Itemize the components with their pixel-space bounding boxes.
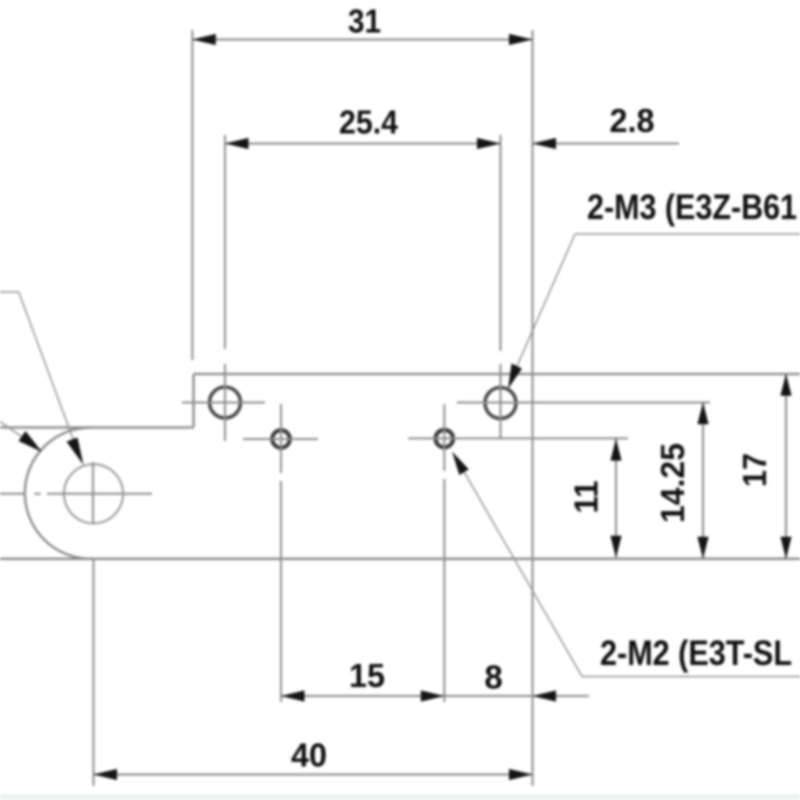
svg-text:2.8: 2.8 [610, 102, 655, 139]
leader: arc radius from left [0, 422, 25, 440]
dim line 31 [192, 39, 532, 41]
dim 8 tail [533, 695, 590, 697]
M3 hole1 crosshair [182, 402, 265, 404]
leader arrowhead at M2 hole 2 [452, 452, 469, 476]
leader arrowhead at M3 hole 2 [508, 364, 522, 390]
dim line 25.4 [225, 143, 501, 145]
dim line 15+8 [281, 695, 533, 697]
bottom band [0, 794, 800, 800]
M2 hole1 crosshair [243, 438, 318, 440]
M2 hole2 crosshair + 11 extension [408, 437, 628, 439]
dim line 14.25 [702, 403, 704, 559]
arrows 17 [780, 374, 791, 396]
leader arrowhead at rounded end [19, 431, 43, 452]
extension line 25.4 left [224, 135, 226, 349]
svg-text:17: 17 [736, 453, 773, 487]
extension line 31 left [191, 30, 193, 360]
extension 40 left [93, 560, 95, 786]
part bottom edge [0, 558, 800, 560]
svg-text:2-M2 (E3T-SL: 2-M2 (E3T-SL [600, 634, 792, 673]
big hole crosshair [0, 493, 26, 495]
arrows 31 [192, 34, 216, 45]
extension 15/8 shared [443, 479, 445, 702]
M3 hole2 crosshair + 14.25 extension [457, 402, 710, 404]
dim line 40 [94, 774, 533, 776]
arrows 15 [281, 690, 305, 701]
arrow 2.8 (outside, points left) [533, 138, 557, 149]
lower-left top edge [0, 426, 194, 428]
M2 hole 1 [272, 430, 290, 448]
M3 hole 1 [210, 387, 241, 418]
rounded end arc [25, 428, 93, 559]
leader arrowhead at big hole [67, 438, 84, 466]
leader: 2-M3 label [510, 234, 800, 382]
dim 2.8 tail [533, 143, 680, 145]
svg-text:15: 15 [349, 657, 385, 694]
svg-text:2-M3 (E3Z-B61: 2-M3 (E3Z-B61 [587, 188, 797, 227]
arrows 40 [94, 769, 118, 780]
svg-text:14.25: 14.25 [654, 443, 691, 523]
M2 hole 2 [436, 430, 454, 448]
svg-text:25.4: 25.4 [339, 104, 399, 141]
svg-text:11: 11 [568, 481, 605, 514]
leader: 2-M2 label [463, 470, 800, 677]
arrow 8 (outside, points left) [533, 690, 557, 701]
svg-text:31: 31 [348, 3, 381, 40]
svg-text:8: 8 [484, 659, 502, 696]
svg-text:40: 40 [291, 737, 327, 774]
dim line 11 [615, 440, 617, 558]
extension line right x=532.5 [532, 30, 534, 786]
step vertical edge [192, 374, 194, 428]
M3 hole 2 [485, 388, 516, 419]
big hole [64, 464, 123, 523]
arrows 14.25 [697, 402, 708, 424]
extension line 25.4 right / hole2 vertical [500, 135, 502, 351]
leader: big hole from top-left [0, 292, 76, 447]
part top edge [194, 373, 800, 375]
arrows 11 [610, 439, 621, 461]
dim line 17 [785, 374, 787, 559]
extension 15 left [280, 404, 282, 473]
arrows 25.4 [225, 138, 249, 149]
